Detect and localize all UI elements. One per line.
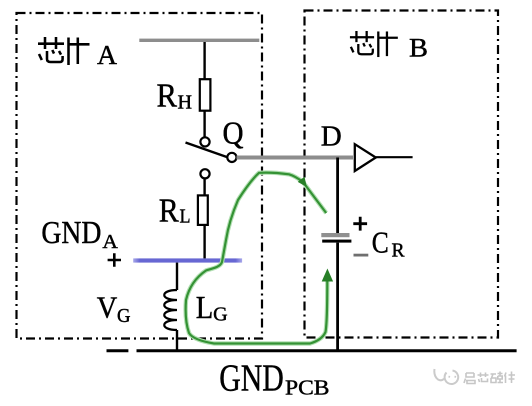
switch Q blade [186, 143, 228, 158]
chip A label 芯片 A [38, 37, 90, 65]
VCC rail (gray) [139, 39, 259, 42]
switch Q contact top [200, 137, 209, 146]
svg-text:L: L [196, 289, 214, 325]
svg-text:H: H [178, 92, 193, 114]
switch Q contact bottom [200, 169, 209, 178]
svg-text:R: R [392, 240, 406, 262]
wire LG to PCB rail [176, 330, 178, 351]
svg-text:L: L [180, 205, 191, 227]
svg-text:A: A [102, 231, 118, 253]
resistor RL [198, 195, 208, 225]
net wire switch to D (gray) [237, 156, 354, 160]
svg-text:D: D [321, 121, 342, 153]
capacitor CR top plate (gray) [321, 233, 349, 237]
watermark text 启芯硬件 [464, 372, 515, 384]
svg-text:G: G [213, 304, 228, 326]
chip B box [305, 11, 499, 338]
return current loop (green) [186, 173, 328, 344]
green arrowhead down-right at CR top [298, 177, 307, 187]
svg-text:Q: Q [223, 115, 244, 151]
capacitor CR bottom plate [322, 240, 351, 243]
wire rail to RH [203, 42, 205, 79]
svg-text:A: A [97, 40, 118, 70]
svg-text:GND: GND [41, 214, 101, 250]
svg-text:R: R [159, 193, 179, 230]
return current loop halo (light green) [186, 173, 328, 344]
watermark logo [434, 369, 458, 384]
svg-text:R: R [157, 78, 178, 115]
svg-text:GND: GND [219, 358, 284, 400]
buffer U1 [355, 144, 376, 171]
switch Q contact common [227, 153, 236, 162]
wire CR to GND rail [336, 243, 339, 351]
wire RL to GND_A [203, 225, 205, 259]
svg-text:PCB: PCB [285, 376, 330, 400]
wire RH to switch [203, 111, 205, 138]
GND_A plane (blue) [133, 258, 242, 262]
wire RL top [203, 178, 205, 195]
GND_PCB rail [107, 349, 129, 352]
wire GND_A to LG [176, 263, 178, 290]
resistor RH [200, 79, 211, 111]
svg-text:C: C [372, 224, 389, 259]
chip B label 芯片 B [350, 31, 398, 57]
plus sign VG [108, 253, 121, 266]
svg-text:G: G [117, 305, 131, 327]
wire D to CR [336, 158, 339, 234]
capacitor CR minus [354, 254, 369, 257]
svg-text:V: V [97, 290, 118, 325]
wire buffer output [376, 156, 413, 158]
chip A box [17, 13, 263, 339]
capacitor CR plus [353, 217, 367, 231]
green arrowhead up at CR [322, 269, 333, 282]
inductor LG [164, 290, 177, 330]
svg-text:B: B [409, 34, 428, 63]
